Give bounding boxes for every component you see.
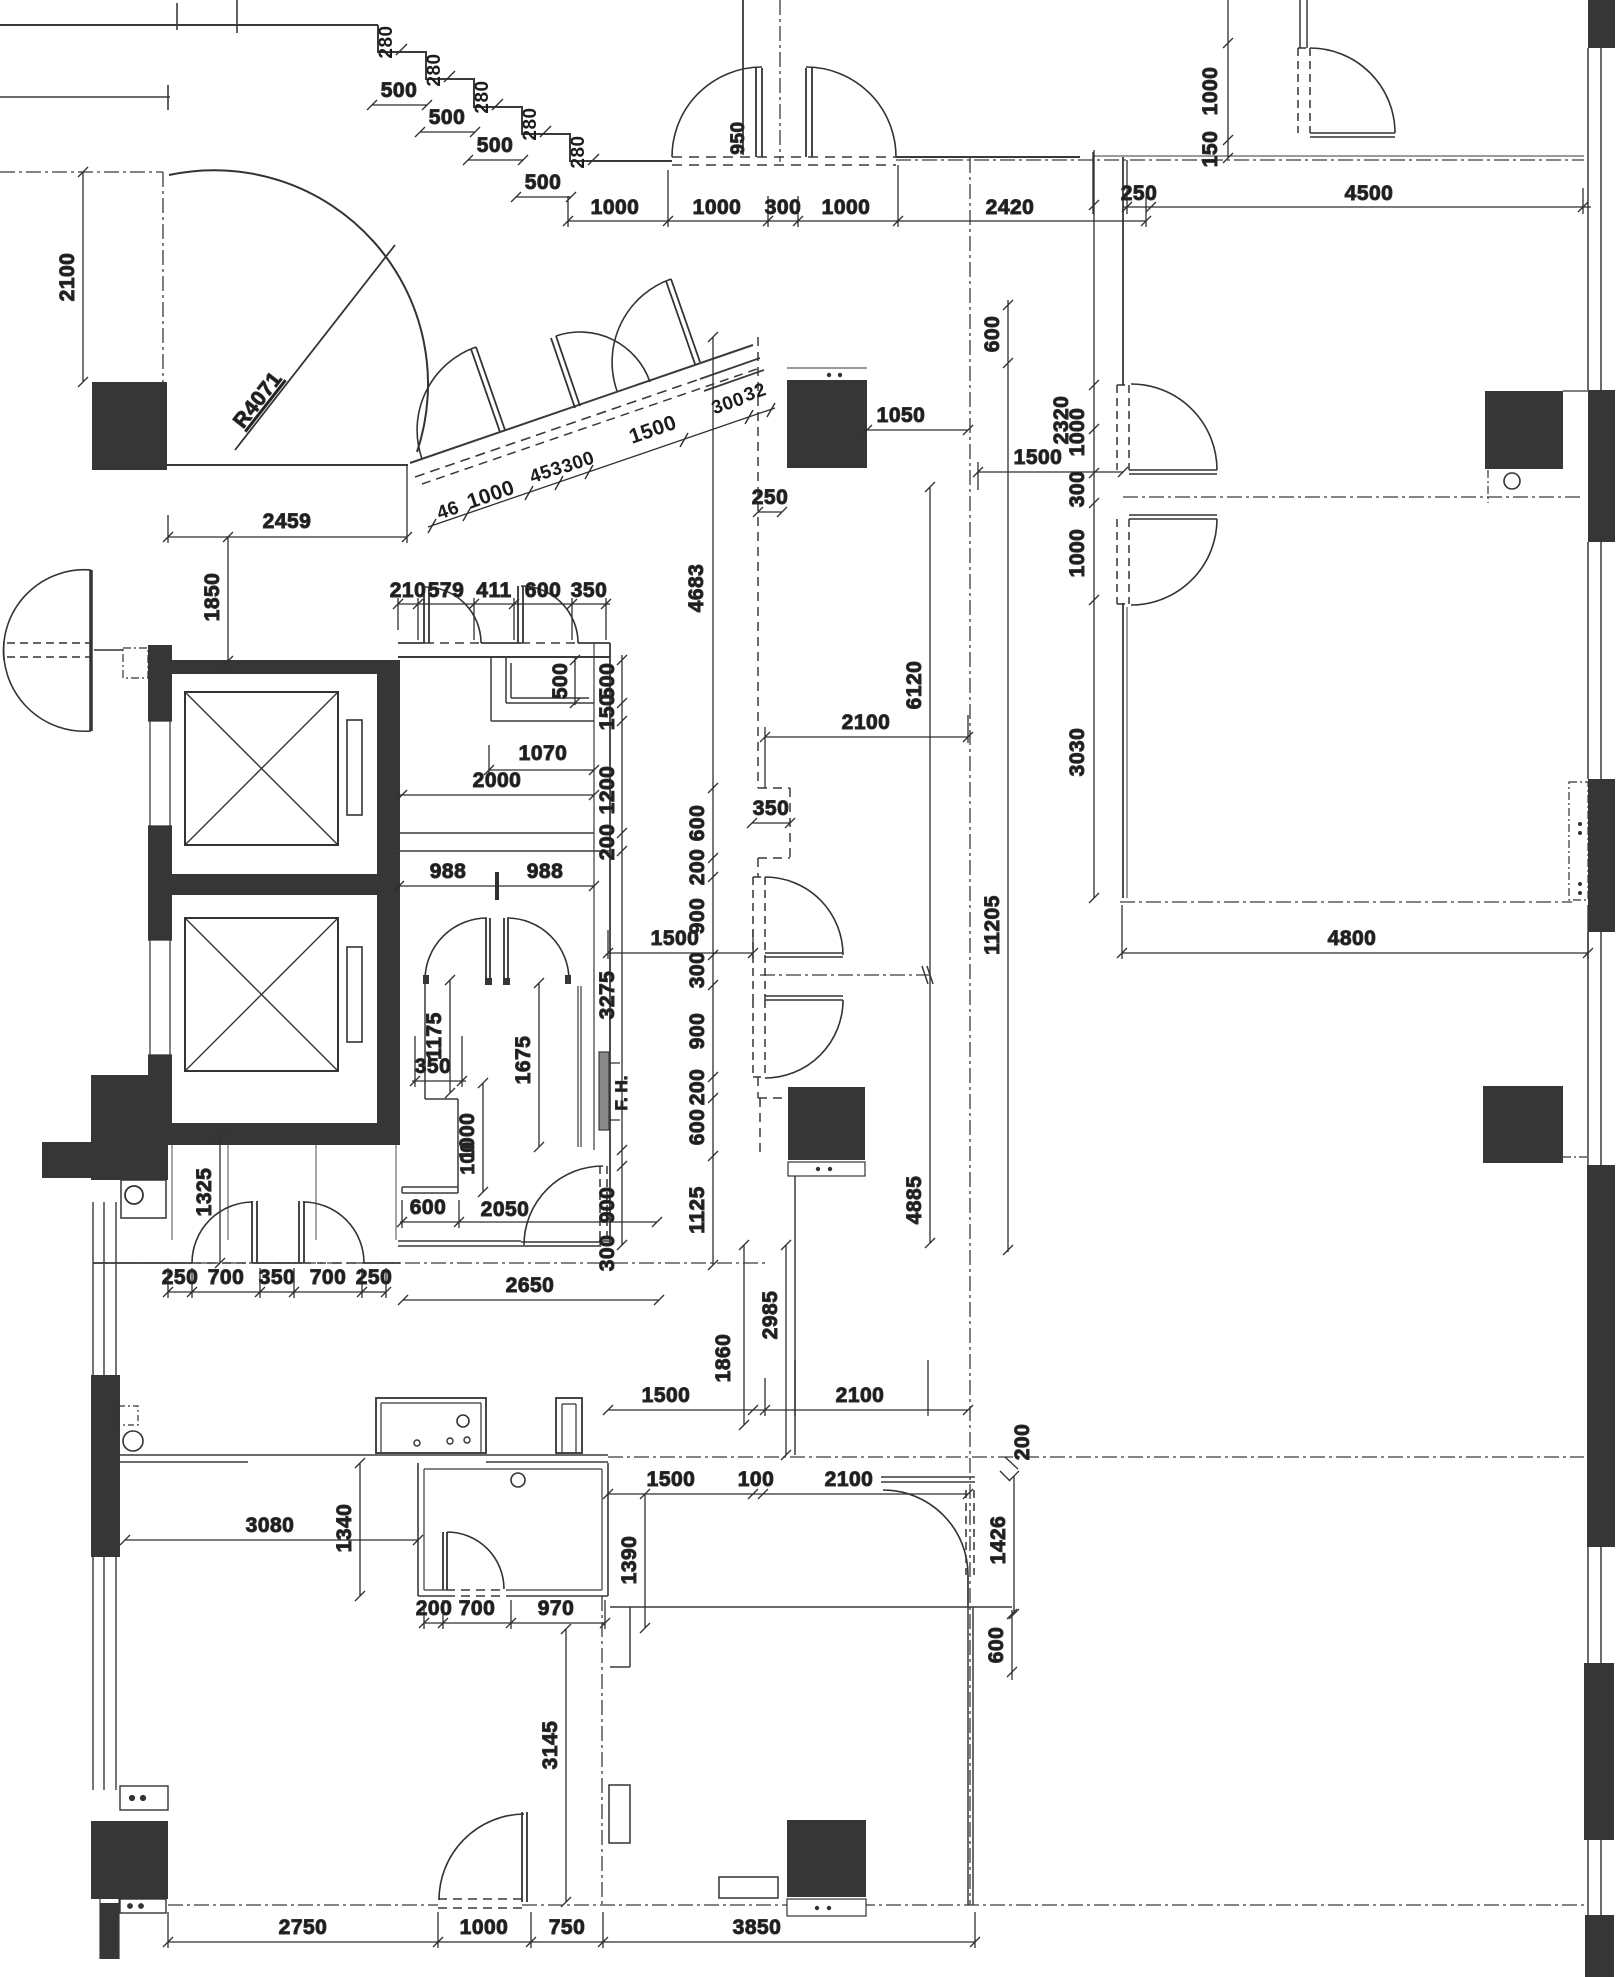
dimension toilet right chain xyxy=(617,655,627,1250)
fire hose cabinet xyxy=(599,1052,609,1130)
scullery inner walls xyxy=(424,1469,602,1590)
toilet inner room walls xyxy=(402,980,458,1193)
centre door arc xyxy=(883,1490,968,1575)
svg-text:280: 280 xyxy=(376,25,397,58)
svg-text:250: 250 xyxy=(162,1266,199,1289)
dimension 1050 xyxy=(862,425,973,435)
dimension 6120/4885 xyxy=(925,482,935,1248)
ramp door 2 arc xyxy=(556,332,650,382)
left facade lower wall block xyxy=(100,1903,119,1959)
waiting room double door left leaf xyxy=(486,918,490,980)
dimension 3145 xyxy=(561,1624,571,1907)
column C4 mid-center xyxy=(788,1087,865,1160)
bottom room door leaf xyxy=(522,1812,527,1902)
sink circle xyxy=(125,1186,143,1204)
svg-text:1675: 1675 xyxy=(512,1036,535,1085)
wall above top-right door xyxy=(1300,0,1307,48)
duct box dash-dot xyxy=(123,648,148,678)
bottom area top wall xyxy=(630,1606,1012,1608)
centre door leaf dashed xyxy=(966,1490,974,1575)
svg-text:1500: 1500 xyxy=(642,1384,691,1407)
svg-text:500: 500 xyxy=(381,79,418,102)
right room upper door arc xyxy=(1131,384,1217,470)
entry door right arc xyxy=(806,67,896,157)
dimension 600/2050 xyxy=(397,1200,662,1228)
dimension left corridor chain xyxy=(708,332,718,1270)
dimension 1175 xyxy=(445,975,455,1098)
dimension 11205 chain xyxy=(1003,300,1013,1255)
dimension 1500/2100 xyxy=(603,1360,973,1416)
svg-text:900: 900 xyxy=(686,1013,709,1050)
toilet exit door arc xyxy=(524,1166,603,1245)
left facade glazing upper xyxy=(93,1202,116,1375)
dimension stair tread 500 a xyxy=(367,100,432,110)
svg-text:2100: 2100 xyxy=(842,711,891,734)
svg-text:1000: 1000 xyxy=(591,196,640,219)
right room lower door sill xyxy=(1129,515,1217,519)
dimension stair tread 500 b xyxy=(415,127,480,137)
svg-text:4500: 4500 xyxy=(1345,182,1394,205)
svg-text:1000: 1000 xyxy=(1199,67,1222,116)
right facade black bar 7 xyxy=(1585,1915,1614,1977)
dimension 250 centre xyxy=(753,507,787,517)
scullery sink xyxy=(511,1473,525,1487)
wc bowl xyxy=(123,1431,143,1451)
dimension 2459 xyxy=(163,465,412,543)
right facade black bar 5 xyxy=(1587,1165,1615,1547)
left facade mullion block xyxy=(91,1375,120,1557)
svg-text:11205: 11205 xyxy=(981,895,1004,955)
dimension 1500 toilet xyxy=(603,930,758,959)
dimension 350 corridor xyxy=(747,818,795,828)
column C3 top-right xyxy=(1485,391,1563,469)
svg-text:150: 150 xyxy=(1199,131,1222,168)
corridor door upper leaf dashed xyxy=(753,877,765,955)
svg-text:4800: 4800 xyxy=(1328,927,1377,950)
right facade black bar 2 xyxy=(1588,390,1615,542)
wire column C3 top to wall xyxy=(1563,390,1588,392)
svg-text:4885: 4885 xyxy=(903,1176,926,1225)
svg-text:300: 300 xyxy=(686,952,709,989)
toilet right inner wall xyxy=(593,643,595,1150)
niche shelf walls xyxy=(506,658,594,703)
corridor door upper arc xyxy=(765,877,843,955)
svg-text:200: 200 xyxy=(416,1597,453,1620)
dimension 1500/100/2100 xyxy=(603,1489,973,1499)
svg-text:250: 250 xyxy=(1121,182,1158,205)
top wall dash-dot to right edge xyxy=(896,159,1584,161)
toilet exit door leaf dashed xyxy=(600,1166,607,1245)
dimension top chain 1000/1000/300/1000/2420 xyxy=(563,165,1151,227)
svg-text:2750: 2750 xyxy=(279,1916,328,1939)
elevator car 2 cross xyxy=(185,918,338,1071)
svg-text:250: 250 xyxy=(356,1266,393,1289)
toilet door A leaf xyxy=(424,587,429,643)
top-right door leaf dashed xyxy=(1298,48,1310,133)
svg-text:1125: 1125 xyxy=(686,1186,709,1234)
svg-text:200: 200 xyxy=(686,1069,709,1106)
dimension 1390 xyxy=(640,1489,650,1633)
corridor branch break ticks xyxy=(922,966,933,984)
lobby door right arc xyxy=(303,1202,364,1263)
svg-text:970: 970 xyxy=(538,1597,575,1620)
column C2 top-center xyxy=(787,380,867,468)
toilet stall partition xyxy=(491,657,594,721)
corridor door lower arc xyxy=(765,1000,843,1078)
dimension 2100 left xyxy=(78,167,88,387)
svg-text:900: 900 xyxy=(596,1187,619,1224)
svg-text:700: 700 xyxy=(310,1266,347,1289)
waiting room double door right arc xyxy=(507,918,569,980)
lobby bottom wall xyxy=(93,1262,400,1264)
shaft left wall upper xyxy=(148,645,172,721)
right room inner wall line xyxy=(1126,607,1128,898)
svg-text:210: 210 xyxy=(390,579,427,602)
scullery door opening dashes xyxy=(446,1590,507,1596)
svg-text:1000: 1000 xyxy=(460,1916,509,1939)
right room left wall xyxy=(1122,157,1124,898)
lobby door left arc xyxy=(192,1202,253,1263)
kitchen duct inner xyxy=(562,1404,576,1453)
svg-text:500: 500 xyxy=(549,663,572,700)
wall poche bottom-left of shaft xyxy=(91,1075,168,1180)
dash-dot column C5 to wall xyxy=(1563,1156,1587,1158)
dimension 2650 xyxy=(398,1295,664,1305)
dimension 1850 xyxy=(223,532,233,666)
ramp lower wall dashed xyxy=(415,379,700,477)
corridor door lower leaf dashed xyxy=(753,1000,765,1077)
right room lower door leaf dashed xyxy=(1117,519,1129,604)
door stop blocks xyxy=(423,975,429,984)
ramp dim ticks xyxy=(428,403,775,533)
svg-text:250: 250 xyxy=(752,486,789,509)
entry door left leaf xyxy=(756,68,762,157)
toilet door B leaf xyxy=(518,586,523,643)
svg-text:1070: 1070 xyxy=(519,742,568,765)
svg-text:2985: 2985 xyxy=(759,1291,782,1340)
dimension bottom 2750/1000/750/3850 xyxy=(163,1912,980,1948)
stove burner large xyxy=(457,1415,469,1427)
left facade glazing lower xyxy=(93,1557,116,1790)
svg-text:1500: 1500 xyxy=(647,1468,696,1491)
svg-text:2000: 2000 xyxy=(473,769,522,792)
corridor door lower sill xyxy=(765,996,843,1000)
left bowtie door leaf xyxy=(89,570,93,731)
svg-text:500: 500 xyxy=(429,106,466,129)
ramp wall solid right end xyxy=(700,358,764,391)
bottom door opening dashes xyxy=(438,1899,522,1908)
ramp dim labels xyxy=(434,379,769,524)
svg-text:600: 600 xyxy=(985,1627,1008,1664)
toilet door opening dashes xyxy=(425,642,578,644)
svg-text:1000: 1000 xyxy=(822,196,871,219)
top wall right of entry xyxy=(896,156,1080,158)
centre corridor dashed wall upper xyxy=(758,337,790,877)
shaft right wall xyxy=(377,660,400,1145)
stair riser labels 280 xyxy=(376,25,589,168)
low cabinet bottom room xyxy=(719,1877,778,1898)
top-right door sill xyxy=(1310,133,1395,137)
left bowtie lower arc xyxy=(4,642,91,731)
bottom corridor dash-dot xyxy=(168,1904,1584,1906)
top-right wall thin line xyxy=(1093,155,1584,157)
dimension 3080 xyxy=(120,1535,423,1545)
toilet bottom wall xyxy=(398,1241,610,1246)
svg-text:1200: 1200 xyxy=(596,766,619,815)
svg-text:1000: 1000 xyxy=(1066,529,1089,578)
svg-text:988: 988 xyxy=(430,860,467,883)
corridor branch dash-dot xyxy=(760,974,930,976)
dimension stair tread 500 d xyxy=(511,192,576,202)
stair steps xyxy=(378,25,672,161)
stair riser ticks xyxy=(396,44,599,165)
svg-text:3030: 3030 xyxy=(1066,728,1089,777)
svg-text:1175: 1175 xyxy=(423,1012,446,1060)
entry door head wall left xyxy=(742,0,744,155)
wire top boundary line xyxy=(0,24,378,26)
svg-text:500: 500 xyxy=(525,171,562,194)
corridor door upper sill xyxy=(765,953,843,957)
dimension 988/988 xyxy=(394,881,599,891)
elevator car 1 door slot xyxy=(347,720,362,815)
dimension right room chain xyxy=(1089,150,1099,903)
elevator car 2 xyxy=(185,918,338,1071)
dimension 2100 upper xyxy=(760,715,973,788)
dots strip above column C2 xyxy=(787,367,867,369)
ramp door 2 leaf xyxy=(551,336,580,408)
lobby door left leaf xyxy=(252,1201,257,1263)
fire hydrant marker lines xyxy=(610,1063,620,1120)
svg-text:2100: 2100 xyxy=(825,1468,874,1491)
svg-text:3145: 3145 xyxy=(539,1721,562,1770)
facade glass lines right edge xyxy=(1588,48,1601,1915)
centre corridor dashed wall lower xyxy=(758,1077,788,1156)
svg-text:950: 950 xyxy=(728,121,749,154)
dimension stair tread 500 c xyxy=(463,155,528,165)
dimension 600 bottom xyxy=(1007,1609,1017,1680)
svg-text:2050: 2050 xyxy=(481,1198,530,1221)
svg-text:350: 350 xyxy=(753,797,790,820)
toilet exit door sill xyxy=(521,1242,601,1246)
svg-text:1500: 1500 xyxy=(1014,446,1063,469)
svg-text:600: 600 xyxy=(686,1109,709,1146)
dimension 500 niche inner xyxy=(570,655,580,708)
svg-text:3850: 3850 xyxy=(733,1916,782,1939)
dots strip below column C4 xyxy=(788,1162,865,1176)
svg-text:6120: 6120 xyxy=(903,661,926,710)
kitchen duct xyxy=(556,1398,582,1453)
svg-text:100: 100 xyxy=(738,1468,775,1491)
svg-text:1000: 1000 xyxy=(1066,408,1089,457)
svg-text:1390: 1390 xyxy=(618,1536,641,1585)
left bowtie threshold dashes xyxy=(7,643,91,657)
bottom room left niche xyxy=(610,1607,630,1667)
toilet door B arc xyxy=(521,586,578,643)
lobby inner lines xyxy=(172,1145,396,1240)
svg-text:600: 600 xyxy=(525,579,562,602)
svg-text:2650: 2650 xyxy=(506,1274,555,1297)
shaft top wall xyxy=(149,660,400,674)
scullery outer walls xyxy=(418,1463,608,1596)
dimension centre bold tick 988 xyxy=(495,872,499,900)
wire left upper dim line xyxy=(0,85,170,110)
dimension 1340 xyxy=(355,1458,365,1601)
stove counter outer xyxy=(376,1398,486,1453)
wall column C1 to ramp xyxy=(167,464,408,466)
svg-text:600: 600 xyxy=(410,1196,447,1219)
svg-text:600: 600 xyxy=(686,805,709,842)
svg-text:411: 411 xyxy=(476,579,511,602)
toilet mid band walls xyxy=(390,833,610,851)
ramp door 3 leaf xyxy=(666,279,700,364)
elevator car 1 cross xyxy=(185,692,338,845)
shaft left wall lower xyxy=(148,1055,172,1143)
dimension lobby 250/700/350/700/250 xyxy=(163,1268,391,1298)
dimension 1500 link xyxy=(973,462,1128,490)
svg-text:280: 280 xyxy=(424,53,445,86)
column C5 mid-right xyxy=(1483,1086,1563,1163)
dimension toilet chain 210/579/411/600/350 xyxy=(393,598,611,640)
stove counter inner xyxy=(381,1403,481,1453)
dimension 350 stall xyxy=(410,1036,467,1087)
svg-text:150: 150 xyxy=(596,694,619,731)
entry door left arc xyxy=(672,67,762,157)
ramp door 1 arc xyxy=(417,347,476,459)
bottom right wall double xyxy=(968,1575,973,1905)
toilet right outer wall xyxy=(609,643,611,1245)
waiting room double door left arc xyxy=(425,918,487,980)
scullery door leaf xyxy=(443,1532,447,1590)
dash-dot grid line top-left xyxy=(0,171,163,173)
entry threshold dashes xyxy=(672,157,896,165)
svg-text:988: 988 xyxy=(527,860,564,883)
shaft bottom band xyxy=(168,1123,398,1145)
svg-text:350: 350 xyxy=(571,579,608,602)
dash-dot stub below column C3 xyxy=(1487,470,1489,503)
corridor wall dashes between doors xyxy=(753,955,765,1000)
svg-text:1000: 1000 xyxy=(693,196,742,219)
right room dash-dot mid xyxy=(1123,496,1584,498)
wall below centre column xyxy=(794,1176,796,1455)
right facade black bar 4 xyxy=(1588,779,1615,932)
svg-text:700: 700 xyxy=(459,1597,496,1620)
big door leaf radius line xyxy=(235,245,395,450)
service box left facade lower xyxy=(120,1899,166,1913)
entry centreline dash-dot xyxy=(779,0,781,162)
svg-text:1050: 1050 xyxy=(877,404,926,427)
dimension 1000/150 topright xyxy=(1223,0,1233,163)
stair tick marks top xyxy=(177,0,237,33)
scullery door arc xyxy=(447,1532,504,1589)
svg-text:1325: 1325 xyxy=(193,1168,216,1217)
circle beside column C3 xyxy=(1504,473,1520,489)
right room lower door arc xyxy=(1131,519,1217,605)
svg-text:500: 500 xyxy=(477,134,514,157)
svg-text:1850: 1850 xyxy=(201,573,224,622)
dash-dot grid line vertical at column C1 xyxy=(162,172,164,382)
wc fixture box xyxy=(119,1406,138,1425)
shaft door jamb lines lower xyxy=(148,940,172,1055)
dimension 2000 xyxy=(397,790,599,800)
entry door right leaf xyxy=(806,68,812,157)
dimension 1000 toilet xyxy=(478,1078,488,1197)
svg-text:200: 200 xyxy=(686,849,709,886)
lobby door opening dashes xyxy=(192,1262,364,1264)
corridor dash-dot above kitchen xyxy=(93,1262,767,1264)
toilet block top wall xyxy=(398,656,610,658)
dimension top right 250/4500 xyxy=(1093,152,1591,214)
wall below centre door xyxy=(967,1575,969,1607)
wire leaf to duct xyxy=(94,649,123,651)
right facade black bar 1 xyxy=(1588,0,1615,48)
wall poche arm left xyxy=(42,1142,91,1178)
shaft door jamb lines upper xyxy=(148,721,172,826)
centre corridor axis dash-dot xyxy=(969,158,971,1905)
svg-text:200: 200 xyxy=(1011,1424,1034,1461)
svg-text:280: 280 xyxy=(472,80,493,113)
dimension 1675 xyxy=(534,978,544,1152)
left facade wall bottom lines xyxy=(100,1899,119,1959)
right room upper door sill xyxy=(1129,470,1217,474)
column C1 top-left xyxy=(92,382,167,470)
kitchen corridor dash-dot xyxy=(608,1456,1584,1458)
kitchen north wall double xyxy=(120,1455,608,1462)
svg-text:200: 200 xyxy=(596,824,619,861)
stove burners small xyxy=(414,1440,420,1446)
svg-text:2100: 2100 xyxy=(836,1384,885,1407)
svg-text:700: 700 xyxy=(208,1266,245,1289)
svg-text:100: 100 xyxy=(458,1141,479,1174)
ramp door 3 arc xyxy=(612,279,671,391)
left bowtie upper arc xyxy=(3,570,91,660)
svg-text:300: 300 xyxy=(596,1235,619,1272)
svg-text:4683: 4683 xyxy=(685,564,708,613)
svg-text:3275: 3275 xyxy=(596,971,619,1020)
column C6 bottom-center xyxy=(787,1820,866,1897)
svg-text:350: 350 xyxy=(259,1266,296,1289)
svg-text:3080: 3080 xyxy=(246,1514,295,1537)
dimension 1325 xyxy=(215,1130,225,1268)
sink box bottom-left of shaft xyxy=(121,1180,166,1218)
dimension 4800 xyxy=(1117,905,1593,959)
ramp upper wall xyxy=(410,345,753,463)
svg-text:300: 300 xyxy=(765,196,802,219)
elevator car 2 door slot xyxy=(347,947,362,1042)
svg-text:579: 579 xyxy=(428,579,465,602)
radiator right of bottom room xyxy=(609,1785,630,1843)
dimension 2985 xyxy=(781,1240,791,1460)
svg-text:280: 280 xyxy=(568,135,589,168)
centre door head wall xyxy=(881,1477,975,1482)
dots strip below column C6 xyxy=(787,1899,866,1916)
service box left facade upper xyxy=(120,1786,168,1810)
leader 200 at centre door xyxy=(1000,1457,1018,1481)
shaft left wall middle xyxy=(148,826,172,940)
right room upper door leaf dashed xyxy=(1117,385,1129,470)
right facade black bar 6 xyxy=(1584,1663,1614,1840)
right room bottom dash-dot xyxy=(1120,901,1572,903)
ramp door 1 leaf xyxy=(471,347,505,432)
svg-text:F. H.: F. H. xyxy=(612,1076,631,1111)
toilet door A arc xyxy=(425,587,481,643)
lobby door right leaf xyxy=(299,1201,304,1263)
svg-text:2459: 2459 xyxy=(263,510,312,533)
bottom room door arc xyxy=(439,1814,524,1900)
toilet top wall outer with door openings xyxy=(398,642,610,644)
dimension 1860 xyxy=(739,1240,749,1430)
right facade service box dashed xyxy=(1569,782,1588,900)
svg-text:900: 900 xyxy=(686,898,709,935)
